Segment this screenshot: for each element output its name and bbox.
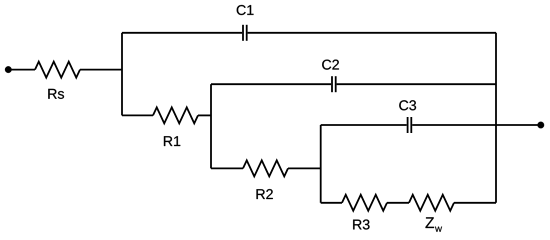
- right rail vertical wire: [495, 33, 497, 203]
- label Zw: [426, 217, 443, 231]
- wire: C2 right plate to right rail: [337, 83, 496, 85]
- capacitor C1: [243, 25, 247, 41]
- wire: node B to C2 left plate: [211, 83, 331, 85]
- label C3: [399, 100, 416, 110]
- wire: R1 to node B: [198, 114, 211, 116]
- label R1: [164, 136, 180, 146]
- wire: C3 right plate to output terminal: [412, 124, 540, 126]
- capacitor C3: [408, 117, 412, 133]
- wire: node B to R2: [211, 167, 243, 169]
- wire: Rs to node A: [80, 69, 122, 71]
- resistor R1: [153, 107, 198, 123]
- wire: C1 right plate to right rail: [248, 32, 496, 34]
- input terminal: [5, 66, 12, 73]
- label C2: [322, 60, 339, 70]
- wire: input to Rs: [8, 69, 35, 71]
- node A vertical wire: [121, 33, 123, 116]
- node B vertical wire: [210, 84, 212, 168]
- wire: Zw to right rail: [454, 202, 496, 204]
- wire: node C to C3 left plate: [321, 124, 407, 126]
- wire: node A to C1 left plate: [122, 32, 242, 34]
- output terminal: [538, 122, 545, 129]
- capacitor C2: [332, 76, 336, 92]
- wire: R3 to Zw: [387, 202, 409, 204]
- label R2: [257, 189, 273, 199]
- label R3: [353, 219, 369, 229]
- node C vertical wire: [320, 125, 322, 203]
- resistor Rs: [35, 62, 80, 78]
- wire: node C to R3: [321, 202, 342, 204]
- Warburg element Zw: [409, 195, 454, 211]
- label Rs: [48, 89, 64, 99]
- wire: R2 to node C: [288, 167, 321, 169]
- wire: node A to R1: [122, 114, 153, 116]
- resistor R3: [342, 195, 387, 211]
- label C1: [237, 5, 254, 15]
- resistor R2: [243, 160, 288, 176]
